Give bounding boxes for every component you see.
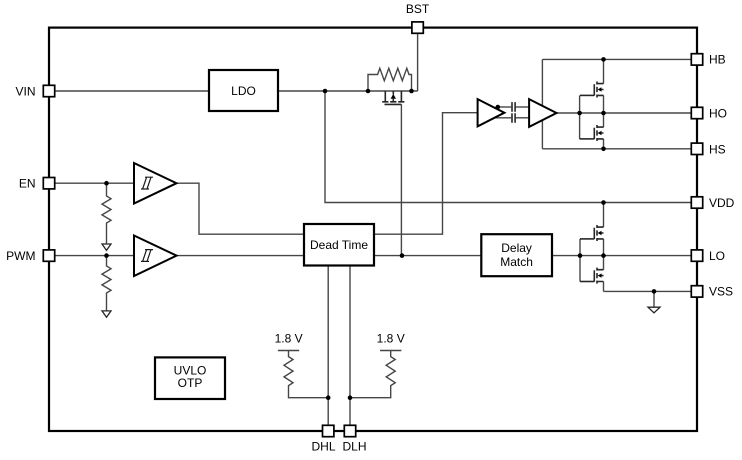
svg-text:OTP: OTP (178, 376, 203, 390)
svg-text:1.8 V: 1.8 V (377, 332, 405, 346)
svg-text:Match: Match (500, 255, 533, 269)
svg-text:LDO: LDO (231, 84, 256, 98)
svg-text:HS: HS (709, 142, 726, 156)
svg-text:DHL: DHL (311, 440, 335, 454)
svg-text:EN: EN (19, 177, 36, 191)
svg-text:LO: LO (709, 249, 725, 263)
svg-text:HO: HO (709, 106, 727, 120)
svg-text:Delay: Delay (501, 241, 532, 255)
svg-text:VDD: VDD (709, 196, 735, 210)
svg-text:Dead Time: Dead Time (310, 238, 368, 252)
svg-text:BST: BST (406, 2, 430, 16)
svg-text:VSS: VSS (709, 285, 733, 299)
svg-text:HB: HB (709, 53, 726, 67)
svg-text:DLH: DLH (342, 440, 366, 454)
svg-text:1.8 V: 1.8 V (275, 332, 303, 346)
svg-text:VIN: VIN (15, 84, 35, 98)
svg-text:PWM: PWM (6, 249, 35, 263)
